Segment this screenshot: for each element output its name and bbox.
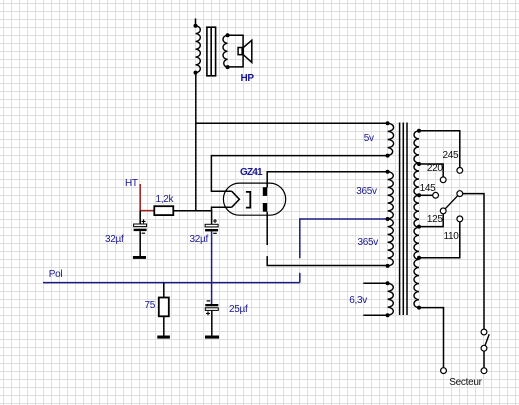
terminal 145	[433, 192, 439, 198]
wire 5v top: B+ vertical to power transformer	[196, 122, 388, 124]
capacitor C3 25uf	[205, 301, 218, 336]
resistor R2 75 leads	[163, 283, 165, 336]
terminal 220	[440, 177, 446, 183]
wire Pol bus (navy)	[43, 282, 300, 284]
transformer T1 core	[207, 27, 216, 76]
label 5v	[364, 134, 374, 144]
terminal secteur left	[441, 368, 447, 374]
speaker HP symbol	[238, 40, 252, 62]
wire switch to secteur right terminal	[483, 351, 485, 368]
transformer T2 5v winding	[388, 123, 394, 155]
label 110	[444, 232, 459, 242]
wire 110 tap	[417, 222, 460, 260]
transformer T2 HT winding 365v-365v	[388, 172, 394, 266]
tube U1 GZ41 envelope	[223, 183, 285, 215]
transformer T1 secondary winding coil	[223, 35, 228, 67]
tube U1 cathode bracket	[246, 192, 250, 208]
label HP	[241, 74, 254, 84]
wire anode bottom segment 2 with corner	[267, 256, 387, 265]
tube U1 anode plate (top)	[263, 187, 267, 196]
label 25uf	[229, 305, 247, 315]
wire 6,3v top lead	[363, 282, 387, 284]
ground for R2	[157, 336, 170, 339]
node: primary bottom terminal dot	[194, 71, 198, 75]
wire mains winding bottom to secteur left terminal	[417, 306, 444, 368]
wire 125 tap	[417, 214, 443, 229]
label 365v upper	[356, 187, 377, 197]
wire from T1 primary down to B+ node	[195, 73, 197, 212]
capacitor C1 32uf (left)	[134, 211, 147, 256]
label 220	[427, 164, 443, 174]
label GZ41	[240, 168, 262, 178]
wire step up to filament	[212, 207, 232, 211]
label 32uf right	[190, 235, 208, 245]
transformer T2 mains winding	[414, 131, 419, 308]
wire 5v bottom: jog to tube filament top	[211, 156, 387, 192]
wire main B+ bus from R1 to tube filament	[173, 210, 212, 212]
resistor R1 1,2k body	[154, 206, 173, 215]
wire 6,3v bottom lead	[363, 314, 387, 316]
label HT red feed wire	[140, 184, 154, 211]
node 6,3v top dot	[386, 281, 390, 285]
wire secondary bottom to speaker	[228, 55, 244, 67]
transformer T2 6,3v winding	[388, 283, 394, 315]
wire anode bottom toward 365v winding bottom (segment 1)	[266, 212, 268, 245]
wire 220 tap	[417, 162, 443, 177]
tube U1 filament	[232, 191, 240, 207]
node 5v top dot	[386, 121, 390, 125]
wire secondary top to speaker	[228, 35, 244, 47]
label 145	[420, 184, 436, 194]
wire navy center-tap of HT winding	[300, 219, 388, 258]
wire 145 tap	[417, 193, 433, 197]
wire C2 negative to Pol bus (navy)	[211, 232, 213, 305]
terminal 245	[457, 168, 463, 174]
terminal 110	[457, 216, 463, 222]
tube U1 anode plate (bottom)	[263, 203, 267, 212]
wire common to mains switch	[463, 194, 484, 330]
transformer T2 core	[400, 123, 407, 316]
transformer T1 primary winding coil	[196, 26, 201, 73]
switch S1 wiper 125 to common	[445, 196, 457, 209]
label Pol	[49, 270, 63, 280]
node: secondary top terminal dot	[226, 33, 230, 37]
terminal common	[457, 191, 463, 197]
label HT	[125, 179, 138, 189]
node 365v top dot	[386, 170, 390, 174]
capacitor C2 32uf (right)	[205, 211, 218, 234]
label 1,2k	[156, 195, 174, 205]
label 125	[427, 215, 443, 225]
label 365v lower	[358, 238, 379, 248]
wire navy center-tap lower segment to Pol bus	[299, 273, 301, 283]
transformer T1 (output) primary top lead wire	[195, 19, 197, 26]
label 245	[443, 151, 459, 161]
node 365v bottom dot	[386, 264, 390, 268]
resistor R2 75 body	[159, 298, 169, 317]
node 5v bottom dot	[386, 154, 390, 158]
label 32uf left	[105, 235, 123, 245]
node: primary top terminal dot	[194, 24, 198, 28]
switch S2 blade	[485, 334, 489, 345]
wire 245 tap	[417, 129, 460, 168]
node: secondary bottom terminal dot	[226, 65, 230, 69]
node HT center-tap dot	[386, 217, 390, 221]
ground for C1	[133, 256, 146, 259]
ground for C3	[205, 336, 219, 339]
terminal 125	[440, 208, 446, 214]
label 75	[145, 301, 156, 311]
wire anode top to 365v winding top	[267, 172, 387, 188]
label Secteur	[449, 378, 481, 388]
switch S2 mains top contact	[481, 329, 487, 335]
node 6,3v bottom dot	[386, 313, 390, 317]
switch S2 bottom contact	[481, 345, 487, 351]
label 6,3v	[349, 296, 367, 306]
terminal secteur right	[481, 368, 487, 374]
